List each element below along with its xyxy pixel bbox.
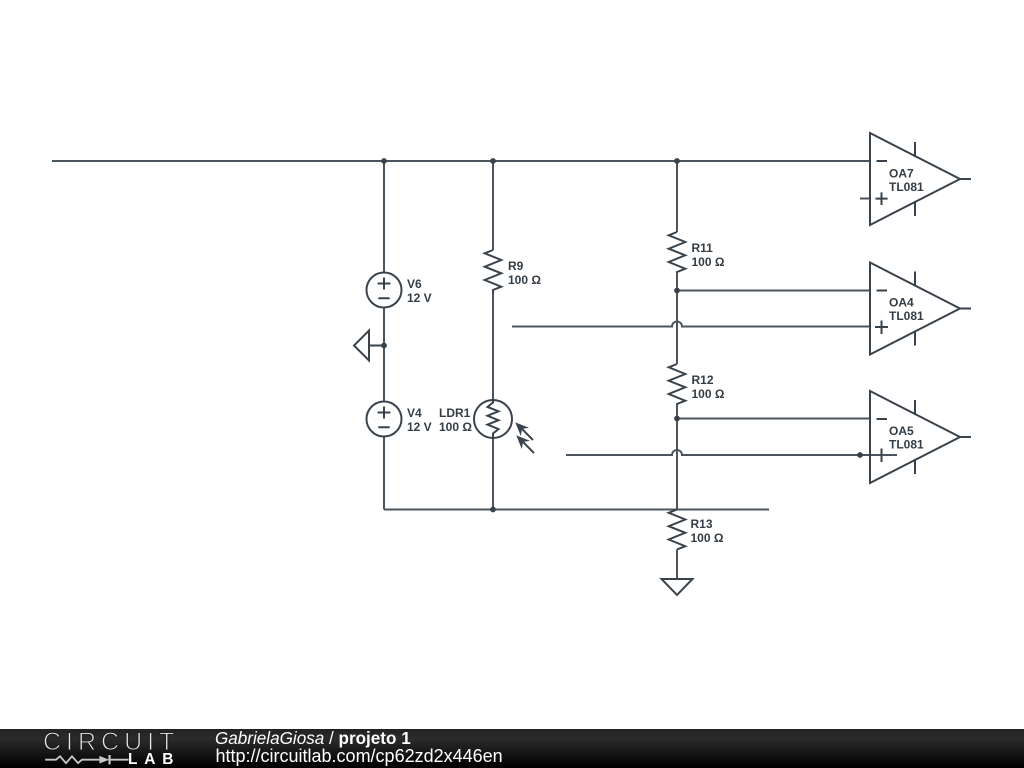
svg-text:R13: R13 bbox=[691, 517, 713, 531]
svg-text:OA4: OA4 bbox=[889, 296, 914, 310]
junction at top net / V6 branch bbox=[381, 158, 387, 164]
logo resistor-diode line bbox=[0, 728, 200, 768]
wire R11 to OA4 inverting input bbox=[677, 290, 870, 292]
svg-text:R11: R11 bbox=[692, 241, 714, 255]
svg-text:100 Ω: 100 Ω bbox=[691, 531, 724, 545]
resistor R13 bbox=[669, 510, 686, 550]
svg-text:R9: R9 bbox=[508, 259, 524, 273]
label V6 12 V bbox=[407, 277, 432, 305]
junction R12-R13 bbox=[674, 416, 680, 422]
node flag at V6/V4 midpoint bbox=[354, 331, 384, 361]
junction LDR1 bottom bbox=[490, 507, 496, 513]
voltage source V6 bbox=[367, 273, 402, 308]
svg-text:LDR1: LDR1 bbox=[439, 406, 471, 420]
svg-text:100 Ω: 100 Ω bbox=[439, 420, 472, 434]
junction at top net / R9 branch bbox=[490, 158, 496, 164]
wire right branch vertical segments bbox=[676, 161, 678, 579]
label R9 100 ohm bbox=[508, 259, 541, 287]
svg-text:100 Ω: 100 Ω bbox=[508, 273, 541, 287]
wire to OA5 non-inverting input with hop over vertical bbox=[566, 450, 897, 455]
svg-text:12 V: 12 V bbox=[407, 291, 432, 305]
label R13 100 ohm bbox=[691, 517, 724, 545]
svg-text:TL081: TL081 bbox=[889, 309, 924, 323]
label R12 100 ohm bbox=[692, 373, 725, 401]
wire R12 to OA5 inverting input bbox=[677, 418, 870, 420]
wire bottom horizontal net bbox=[384, 509, 769, 511]
svg-text:TL081: TL081 bbox=[889, 180, 924, 194]
junction R11-R12 bbox=[674, 288, 680, 294]
svg-text:12 V: 12 V bbox=[407, 420, 432, 434]
resistor R11 bbox=[669, 232, 686, 273]
svg-text:V6: V6 bbox=[407, 277, 422, 291]
svg-text:V4: V4 bbox=[407, 406, 422, 420]
wire left branch vertical segments bbox=[383, 161, 385, 510]
junction OA5 plus wire bbox=[857, 452, 863, 458]
resistor R12 bbox=[669, 364, 686, 405]
resistor R9 bbox=[485, 250, 502, 293]
label OA5 TL081 bbox=[889, 424, 924, 452]
footer text bbox=[215, 730, 411, 747]
wire top horizontal net bbox=[52, 160, 870, 162]
wire OA7 plus input stub bbox=[860, 198, 870, 200]
svg-text:100 Ω: 100 Ω bbox=[692, 387, 725, 401]
op-amp OA4 bbox=[870, 263, 971, 355]
label R11 100 ohm bbox=[692, 241, 725, 269]
op-amp OA5 bbox=[870, 391, 971, 483]
photoresistor LDR1 bbox=[474, 400, 512, 438]
label OA4 TL081 bbox=[889, 296, 924, 324]
label LDR1 100 ohm bbox=[439, 406, 472, 434]
footer bar bbox=[0, 729, 1024, 768]
LDR1 light arrows bbox=[511, 418, 538, 457]
voltage source V4 bbox=[367, 402, 402, 437]
ground symbol bbox=[662, 579, 693, 595]
svg-text:OA5: OA5 bbox=[889, 424, 914, 438]
wire middle branch vertical segments bbox=[492, 161, 494, 510]
junction at top net / R11 branch bbox=[674, 158, 680, 164]
label OA7 TL081 bbox=[889, 167, 924, 195]
svg-text:OA7: OA7 bbox=[889, 167, 914, 181]
wire to OA4 non-inverting input with hop over vertical bbox=[512, 322, 870, 327]
op-amp OA7 bbox=[870, 133, 971, 225]
label V4 12 V bbox=[407, 406, 432, 434]
junction at node flag bbox=[381, 343, 387, 349]
svg-text:R12: R12 bbox=[692, 373, 714, 387]
svg-text:100 Ω: 100 Ω bbox=[692, 255, 725, 269]
CircuitLab logo text bbox=[43, 730, 179, 755]
svg-text:TL081: TL081 bbox=[889, 438, 924, 452]
junction dots bbox=[381, 158, 863, 512]
